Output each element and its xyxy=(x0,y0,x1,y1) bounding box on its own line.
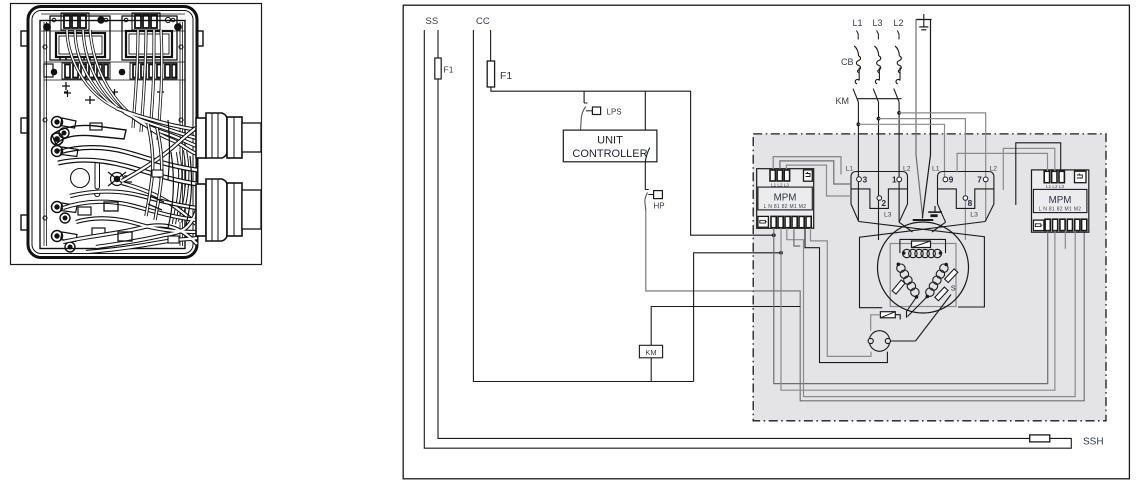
extra mid cables xyxy=(146,124,162,220)
svg-text:L1: L1 xyxy=(853,18,863,28)
latch tab right 1 xyxy=(197,31,203,46)
corner screw TR xyxy=(175,24,182,31)
center clamp bolt xyxy=(108,172,132,186)
funnel line left xyxy=(938,204,946,222)
contactor KM pole 3 blade xyxy=(894,89,899,102)
junction dot pole3 xyxy=(897,111,901,115)
wire CC2 upper xyxy=(490,30,492,61)
hinge tab left 2 xyxy=(21,118,28,133)
vertical slot xyxy=(95,162,100,189)
heater left wire xyxy=(871,315,881,331)
latch tab right 2 xyxy=(197,215,203,230)
funnel line right xyxy=(899,204,907,222)
wire controller right drop xyxy=(644,91,646,130)
wire SS2 upper xyxy=(437,30,439,58)
motor inner gray loop xyxy=(890,244,956,307)
left winding xyxy=(897,264,919,296)
marker rects right xyxy=(152,170,163,177)
wire SS2 lower to SSH top xyxy=(438,79,1030,438)
stub right MPM xyxy=(1064,231,1066,249)
junction dot feed B xyxy=(779,251,783,255)
lower mid clamp rects xyxy=(104,196,164,241)
svg-text:MPM: MPM xyxy=(774,193,797,204)
wire below motor S7 xyxy=(908,297,928,317)
inner side rails xyxy=(44,22,183,246)
wire LPS branch xyxy=(583,91,585,103)
figure frame xyxy=(11,4,262,265)
svg-text:CONTROLLER: CONTROLLER xyxy=(572,148,647,160)
wire cross S1 xyxy=(859,222,985,308)
contactor KM linkage bar xyxy=(857,98,902,100)
gray box fill xyxy=(753,134,1106,421)
svg-text:CB: CB xyxy=(841,57,854,67)
wire pole1 tap to terminal 9 (gray) xyxy=(858,124,944,177)
module B top terminal bank xyxy=(132,13,160,30)
svg-text:UNIT: UNIT xyxy=(597,135,623,147)
contactor module B body xyxy=(122,16,177,60)
corner screw TL xyxy=(44,24,51,31)
wire MPM-L2 to block xyxy=(780,161,851,184)
sensor resistor left xyxy=(892,280,905,294)
switch blade inside controller xyxy=(645,148,650,162)
wire junction box slant xyxy=(916,295,952,342)
breaker CB pole 2 xyxy=(874,46,880,84)
svg-text:7: 7 xyxy=(977,176,982,185)
wire terminal 8 to MPM-L3 xyxy=(1016,143,1061,205)
relay coil KM xyxy=(639,345,662,358)
wire pole2 tap to terminal 8 (gray) xyxy=(879,119,966,196)
junction box JB xyxy=(869,331,890,352)
left rail screws xyxy=(43,45,47,49)
terminal 8 xyxy=(963,196,968,201)
supply arrow L3 xyxy=(877,31,879,40)
wire controller output to MPM (lower) xyxy=(694,253,781,382)
switch HP blade xyxy=(645,189,648,191)
run C xyxy=(787,228,1075,397)
svg-text:L1: L1 xyxy=(846,166,854,173)
funnel line left xyxy=(851,204,859,222)
hinge tab left 1 xyxy=(21,31,28,46)
contactor KM pole 1 blade xyxy=(853,89,858,102)
motor body M1 xyxy=(878,222,969,313)
svg-text:F1: F1 xyxy=(500,70,512,82)
wire controller to HP xyxy=(644,162,646,190)
mid small bracket xyxy=(85,96,95,104)
top rail line xyxy=(41,14,185,31)
terminal 2 xyxy=(877,196,882,201)
funnel line right xyxy=(985,204,994,222)
bottom aux connector xyxy=(758,216,769,227)
center radiating cables xyxy=(122,128,196,224)
wire main feed from F1 xyxy=(491,87,774,235)
terminal 3 xyxy=(857,177,862,182)
wire SS1 to SSH bottom xyxy=(424,30,1071,448)
module body xyxy=(757,169,814,229)
contactor module A window xyxy=(56,33,105,57)
breaker CB pole 3 xyxy=(895,46,901,84)
svg-text:L3: L3 xyxy=(970,212,978,219)
junction dot feed A xyxy=(772,233,776,237)
svg-text:F1: F1 xyxy=(444,65,454,75)
conduit fitting upper xyxy=(196,113,261,158)
wire KM coil return xyxy=(650,358,652,382)
right edge thin bundle xyxy=(168,120,192,228)
top latch screw 1 xyxy=(98,17,104,23)
svg-text:8: 8 xyxy=(968,199,973,208)
contactor KM pole 2 blade xyxy=(873,89,878,102)
terminal 7 xyxy=(983,177,988,182)
heater right stub xyxy=(895,315,900,320)
bottom aux connector xyxy=(1033,220,1044,231)
chassis bar at earth point xyxy=(913,219,934,221)
svg-text:L2: L2 xyxy=(903,166,911,173)
module A top terminal bank xyxy=(61,13,89,30)
svg-text:L1: L1 xyxy=(932,166,940,173)
cable bundles from module A down xyxy=(67,30,140,120)
sensor resistor right upper xyxy=(945,269,958,283)
din rail xyxy=(44,62,185,80)
MPM label plate xyxy=(758,187,812,210)
terminal 9 xyxy=(943,177,948,182)
lower left lug group xyxy=(52,202,106,253)
top terminal slot 3 xyxy=(784,170,789,181)
run B xyxy=(781,228,1055,391)
bottom terminal slots xyxy=(771,216,776,227)
wire below motor S6 xyxy=(907,297,917,318)
earth symbol inside box xyxy=(928,206,942,217)
svg-text:9: 9 xyxy=(949,176,954,185)
JB terminal left xyxy=(868,338,873,343)
breaker CB pole 1 xyxy=(854,46,860,84)
top latch screw 2 xyxy=(165,17,170,22)
right edge vertical bundle xyxy=(174,150,187,224)
top winding xyxy=(903,249,942,257)
sensor resistor right lower xyxy=(935,287,948,301)
svg-text:L2: L2 xyxy=(990,166,998,173)
JB terminal right xyxy=(885,338,890,343)
bottom terminal slots xyxy=(1045,219,1050,230)
contactor module A body xyxy=(50,16,110,60)
big cable upper sweep to top conduit xyxy=(116,108,197,154)
enclosure inner panel xyxy=(40,21,185,249)
knockout circle xyxy=(71,169,90,188)
supply arrow L1 xyxy=(857,31,859,40)
svg-text:S: S xyxy=(951,284,956,293)
top aux connector xyxy=(804,170,813,181)
block outline xyxy=(938,172,994,205)
svg-text:KM: KM xyxy=(836,96,850,106)
svg-text:SS: SS xyxy=(426,16,439,27)
svg-text:HP: HP xyxy=(654,202,665,211)
terminal strip B xyxy=(130,63,177,79)
module A bottom pins xyxy=(60,57,96,60)
switch LPS blade xyxy=(584,102,587,104)
wire KM pole1 down to terminal 3 xyxy=(857,102,859,177)
svg-text:KM: KM xyxy=(645,348,656,357)
hinge tab left 3 xyxy=(21,215,28,230)
svg-text:L N 81 82 M1 M2: L N 81 82 M1 M2 xyxy=(764,204,807,210)
wire MPM M1 to junction box bottom xyxy=(805,228,887,363)
gray box dash-dot border xyxy=(753,134,1106,421)
svg-text:1: 1 xyxy=(892,176,897,185)
wire terminal 9 to MPM-L1 xyxy=(957,153,1047,172)
supply arrow L2 xyxy=(897,31,899,40)
strip screws xyxy=(51,69,57,75)
terminal strip A xyxy=(62,63,110,79)
conduit fitting lower xyxy=(196,179,261,241)
wire cross S4 xyxy=(932,222,946,232)
wire terminal 7 to MPM-L2 xyxy=(1003,148,1055,190)
fuse F1 (CC) xyxy=(487,61,494,87)
winding node dots xyxy=(902,251,906,255)
MPM label plate xyxy=(1033,189,1087,212)
ground symbol (top) xyxy=(916,14,932,30)
top terminal slot 1 xyxy=(770,170,775,181)
delta node dots xyxy=(897,263,901,267)
crankcase heater (crossed box) xyxy=(880,312,895,318)
junction dot pole1 xyxy=(857,122,861,126)
svg-text:L2: L2 xyxy=(894,18,904,28)
svg-text:L1 L2 L3: L1 L2 L3 xyxy=(1046,184,1064,189)
svg-text:2: 2 xyxy=(882,199,887,208)
module body xyxy=(1032,170,1089,232)
small T fittings row xyxy=(64,90,71,97)
wire MPM M2 to junction box left xyxy=(811,228,872,356)
wire cross S2 xyxy=(860,222,986,308)
wire KM pole2 down to terminal 2 xyxy=(878,102,880,195)
wire MPM-L3 to block xyxy=(786,165,851,196)
earth wire pair down xyxy=(916,20,923,219)
contact HP xyxy=(654,191,663,199)
contact LPS xyxy=(592,107,600,115)
wire KM pole3 down to terminal 1 xyxy=(898,102,900,177)
heater SSH xyxy=(1030,435,1050,442)
small part left of strip xyxy=(44,64,53,77)
svg-text:LPS: LPS xyxy=(607,108,622,117)
top terminal slots xyxy=(1044,171,1049,182)
svg-text:L N 81 82 M1 M2: L N 81 82 M1 M2 xyxy=(1039,206,1082,212)
wire KM coil feed xyxy=(651,307,800,346)
cable mid sweep xyxy=(58,148,197,185)
lug arm upper left xyxy=(51,123,126,145)
ground stud xyxy=(62,82,70,92)
cable lower sweeps to bottom conduit xyxy=(63,192,197,253)
svg-text:3: 3 xyxy=(863,176,868,185)
terminal 1 xyxy=(897,177,902,182)
svg-text:SSH: SSH xyxy=(1083,437,1104,448)
thermal protector (crossed box) xyxy=(912,241,931,248)
top terminal slot 2 xyxy=(777,170,782,181)
wire cross S3 xyxy=(899,222,912,232)
wire CC1 to KM return xyxy=(473,30,693,382)
enclosure outer shell xyxy=(28,7,197,258)
junction dot pole2 xyxy=(877,117,881,121)
wire pole3 tap to terminal 7 (gray) xyxy=(899,113,986,177)
svg-text:L3: L3 xyxy=(873,18,883,28)
block outline xyxy=(851,172,908,205)
protector parallel loop xyxy=(900,239,946,253)
run A xyxy=(774,228,1048,384)
svg-text:L3: L3 xyxy=(884,212,892,219)
wire HP output (gray) through MPM M-terminal to right MPM xyxy=(646,211,1084,401)
cable bundles from module B down xyxy=(133,30,162,140)
right winding xyxy=(926,264,948,296)
fuse F1 (SS) xyxy=(435,58,441,79)
top aux connector xyxy=(1075,171,1087,183)
wire MPM 82 to HP junction xyxy=(794,228,800,246)
svg-text:MPM: MPM xyxy=(1049,195,1072,206)
wire MPM-L1 to terminal 3 xyxy=(773,157,841,175)
svg-text:CC: CC xyxy=(476,16,490,27)
op box UNIT CONTROLLER U1 xyxy=(563,130,657,162)
schematic outer border xyxy=(403,5,1129,479)
enclosure lid line xyxy=(32,11,193,254)
upper left lug group xyxy=(52,117,79,157)
contactor module B window xyxy=(126,31,172,57)
